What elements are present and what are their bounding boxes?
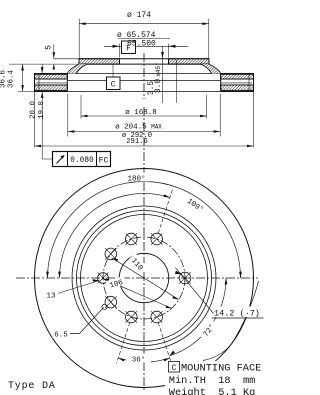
mounting face note xyxy=(165,361,265,395)
svg-text:x45°: x45° xyxy=(155,62,162,76)
svg-text:FC: FC xyxy=(99,156,109,165)
neck right xyxy=(201,64,221,73)
svg-text:0.080: 0.080 xyxy=(70,157,94,165)
dim line 106 xyxy=(103,279,172,309)
labels bottom view xyxy=(44,173,263,365)
svg-text:6.5: 6.5 xyxy=(54,331,68,339)
dim dia204.5 MAX xyxy=(68,94,220,137)
dim line 110 xyxy=(112,258,179,300)
svg-text:36.4: 36.4 xyxy=(8,70,16,89)
through lines xyxy=(67,73,220,75)
centerline vertical xyxy=(143,53,145,390)
dim dia174 xyxy=(79,11,209,58)
svg-text:13: 13 xyxy=(46,293,56,301)
hole 144deg xyxy=(105,248,117,260)
arrowhead at hole xyxy=(175,271,182,275)
hole 288deg xyxy=(151,311,163,323)
hole 108deg xyxy=(126,233,138,245)
svg-text:19.8: 19.8 xyxy=(38,101,46,119)
runout feature control frame xyxy=(53,152,111,167)
datum F box xyxy=(122,41,136,54)
hole 0deg xyxy=(179,272,191,284)
svg-text:65.500: 65.500 xyxy=(127,39,156,48)
leader 13 xyxy=(58,281,100,294)
dim dia65.574/65.500 xyxy=(104,31,188,58)
hole 252deg xyxy=(126,311,138,323)
bolt circle xyxy=(103,237,185,319)
svg-text:36.6: 36.6 xyxy=(0,70,8,89)
svg-text:ø 174: ø 174 xyxy=(127,11,151,20)
svg-text:C: C xyxy=(172,364,177,373)
svg-text:MOUNTING FACE: MOUNTING FACE xyxy=(181,363,261,375)
svg-text:Weight 5.1 Kg: Weight 5.1 Kg xyxy=(169,387,256,395)
svg-text:3.0: 3.0 xyxy=(154,79,163,94)
arc dim 36deg xyxy=(118,358,170,362)
svg-text:5: 5 xyxy=(45,45,54,50)
band bottom extension left xyxy=(18,91,35,93)
svg-text:Type DA: Type DA xyxy=(8,381,56,392)
dim 5 xyxy=(45,44,80,69)
band inner circle xyxy=(72,206,216,350)
hat flange xyxy=(79,59,209,64)
dim dia168.8 xyxy=(81,95,207,119)
svg-text:ø 168.8: ø 168.8 xyxy=(125,109,157,117)
svg-text:14.2 (·7): 14.2 (·7) xyxy=(214,309,260,319)
chamfer callout 3.5/3.0x45 xyxy=(147,46,177,103)
arc dim 109deg xyxy=(59,193,170,278)
svg-text:Min.TH 18 mm: Min.TH 18 mm xyxy=(169,375,256,387)
svg-text:20.0: 20.0 xyxy=(30,101,38,120)
neck left xyxy=(67,64,87,73)
dim 36.6/36.4 xyxy=(0,64,24,91)
hole 72deg xyxy=(151,233,163,245)
dashed radial 288deg xyxy=(158,323,171,364)
bolt holes xyxy=(98,233,191,323)
braking band right xyxy=(67,74,253,92)
dim 20.0/19.8 + FC leader xyxy=(30,64,53,159)
braking band left xyxy=(35,74,68,92)
flange circle dia174 xyxy=(81,215,208,342)
svg-text:180°: 180° xyxy=(127,174,145,183)
leader 14.2 xyxy=(175,268,263,318)
dim dia292.0/291.6 xyxy=(35,92,254,147)
centerline horizontal xyxy=(16,277,258,279)
datum C box + leader xyxy=(107,64,121,90)
leader mounting face xyxy=(203,281,259,361)
hole 216deg xyxy=(105,296,117,308)
svg-text:ø 204.5 MAX: ø 204.5 MAX xyxy=(115,124,162,132)
arc dim 180deg xyxy=(48,181,241,278)
svg-text:291.6: 291.6 xyxy=(126,138,148,146)
leader 6.5 xyxy=(70,308,104,334)
svg-text:36°: 36° xyxy=(132,355,146,364)
small hole dia6.5 xyxy=(102,304,107,309)
fillet circle xyxy=(77,211,212,346)
mounting face extension line xyxy=(9,63,79,65)
dashed radial 252deg xyxy=(117,323,130,364)
dashed radial 72deg xyxy=(158,189,173,234)
outer circle dia292 xyxy=(35,169,254,388)
hole 180deg dia13 xyxy=(98,273,109,284)
svg-text:C: C xyxy=(111,81,116,90)
arc dim 72deg xyxy=(169,278,226,356)
bore circle xyxy=(119,253,168,302)
